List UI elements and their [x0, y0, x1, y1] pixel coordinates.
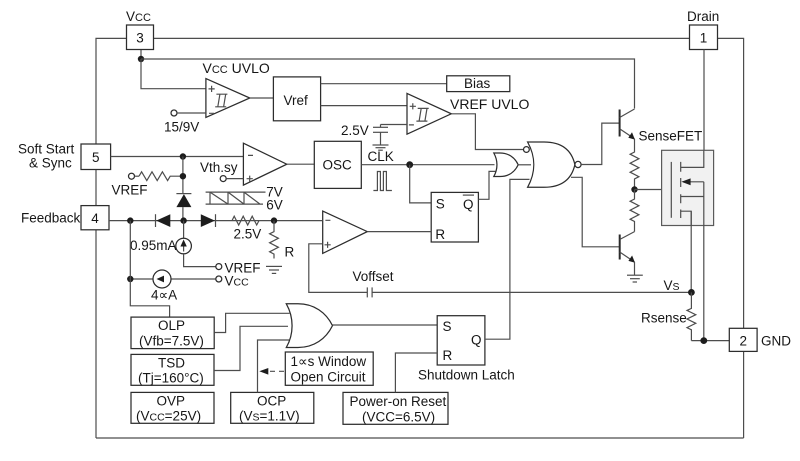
- wire OR out to shutdown S: [333, 324, 438, 326]
- wire Voffset line to Vs: [372, 291, 691, 293]
- svg-text:(VCC=25V): (VCC=25V): [136, 409, 201, 424]
- or-gate small OR (CLK/Qbar): [494, 153, 518, 177]
- resistor drive upper: [630, 150, 639, 190]
- svg-text:TSD: TSD: [158, 356, 185, 371]
- svg-text:1: 1: [700, 30, 708, 45]
- svg-text:2: 2: [739, 333, 747, 348]
- wire comparator to OSC: [287, 163, 315, 165]
- node feedback left: [127, 217, 133, 223]
- wire FET source down to GND node: [703, 197, 705, 341]
- node on soft start line: [180, 153, 186, 159]
- svg-text:OVP: OVP: [157, 394, 186, 409]
- terminal Vth.sy: [200, 160, 243, 182]
- wire feedback down to OLP: [130, 221, 169, 318]
- current source 4uA: [127, 270, 216, 303]
- nand-gate main NAND: [524, 142, 582, 187]
- pin 4 Feedback: [21, 206, 109, 230]
- svg-text:SenseFET: SenseFET: [639, 129, 703, 144]
- wire right border lower (pin2 to bottom): [743, 351, 745, 438]
- SenseFET body: [662, 150, 714, 225]
- wire CLK down to S input: [410, 165, 432, 203]
- wire small OR to NAND: [518, 164, 531, 166]
- svg-text:Open Circuit: Open Circuit: [291, 370, 366, 385]
- wire VCC rail to transistor collector: [141, 59, 635, 109]
- svg-text:Drain: Drain: [687, 9, 719, 24]
- wire NAND to bottom transistor base: [571, 177, 620, 247]
- wire left border: [96, 38, 127, 438]
- svg-text:Vref: Vref: [284, 93, 309, 108]
- svg-text:4∝A: 4∝A: [151, 288, 177, 303]
- block TSD: [131, 354, 214, 385]
- block OCP: [231, 392, 314, 423]
- wire CLK line: [361, 164, 494, 166]
- svg-text:2.5V: 2.5V: [234, 227, 262, 242]
- svg-text:(Tj=160°C): (Tj=160°C): [138, 371, 204, 386]
- svg-text:(VS=1.1V): (VS=1.1V): [239, 409, 300, 424]
- svg-text:S: S: [436, 197, 445, 212]
- wire pin5 to comparator: [111, 156, 244, 158]
- wire VCC to UVLO + input: [141, 59, 206, 89]
- wire right border upper (pin1 to pin2): [718, 38, 744, 328]
- node CLK: [406, 161, 413, 168]
- node GND: [700, 337, 707, 344]
- svg-text:Q: Q: [463, 197, 474, 212]
- svg-text:S: S: [443, 319, 452, 334]
- svg-text:VREF: VREF: [112, 183, 148, 198]
- svg-text:1∝s Window: 1∝s Window: [291, 354, 367, 369]
- block Bias: [447, 76, 510, 92]
- svg-text:R: R: [443, 348, 453, 363]
- wire Vref to VREF UVLO: [321, 105, 407, 107]
- wire OLP to OR gate: [214, 313, 289, 332]
- diode D1 (to soft start): [176, 194, 191, 221]
- svg-text:2.5V: 2.5V: [341, 123, 369, 138]
- svg-text:Vth.sy: Vth.sy: [200, 160, 238, 175]
- svg-text:3: 3: [136, 30, 144, 45]
- svg-text:Bias: Bias: [464, 76, 491, 91]
- wire Vref to Bias: [321, 83, 447, 85]
- diode D3 pointing right: [201, 214, 216, 227]
- svg-text:Soft Start: Soft Start: [18, 142, 75, 157]
- block Vref: [273, 77, 320, 121]
- svg-text:Q: Q: [471, 333, 482, 348]
- svg-text:VS: VS: [664, 278, 680, 293]
- svg-text:& Sync: & Sync: [29, 156, 72, 171]
- terminal VREF with resistor: [112, 172, 187, 198]
- wire OCP to OR gate: [258, 340, 290, 392]
- node gate drive: [631, 186, 637, 192]
- terminal VREF: [216, 261, 261, 276]
- capacitor Voffset: [353, 269, 394, 297]
- dashed arrow from window box to OCP line: [259, 368, 285, 375]
- wire comparator out to R input: [367, 231, 431, 233]
- svg-text:GND: GND: [761, 333, 791, 348]
- svg-text:Voffset: Voffset: [353, 269, 394, 284]
- wire shutdown Q up to NAND input: [485, 179, 530, 339]
- wire pin1 down to SenseFET drain: [703, 50, 705, 168]
- block 1us window open circuit: [285, 352, 373, 385]
- wire node to FET gate: [635, 189, 672, 191]
- node at pin3 bottom: [138, 56, 144, 62]
- svg-text:(VCC=6.5V): (VCC=6.5V): [362, 410, 435, 425]
- resistor Rsense: [641, 292, 696, 340]
- svg-text:Feedback: Feedback: [21, 210, 81, 225]
- svg-text:Power-on Reset: Power-on Reset: [350, 394, 447, 409]
- resistor R to ground: [270, 221, 295, 260]
- wire + input down to Voffset line: [309, 244, 368, 293]
- ground under Q2: [627, 275, 643, 282]
- wire 0.95mA to VREF terminal: [184, 254, 216, 267]
- wire FET sense down to Vs: [690, 211, 692, 292]
- node Vs: [688, 289, 695, 296]
- block OLP: [131, 317, 214, 349]
- node feedback mid: [180, 217, 186, 223]
- pin 2 GND: [729, 328, 791, 351]
- wire PWM Qbar to small OR: [478, 171, 497, 199]
- block OVP: [131, 392, 214, 423]
- svg-text:(Vfb=7.5V): (Vfb=7.5V): [139, 334, 204, 349]
- pin 3 VCC: [126, 9, 154, 50]
- pin 1 Drain: [687, 9, 719, 50]
- wire VREF UVLO output to NAND input bubble: [451, 114, 523, 150]
- op-amp VREF UVLO comparator: [407, 93, 529, 134]
- block Power-on Reset: [343, 392, 448, 424]
- pin 5 Soft Start & Sync: [18, 142, 111, 171]
- node feedback right: [271, 217, 277, 223]
- terminal VCC: [216, 274, 249, 289]
- svg-text:OSC: OSC: [323, 158, 353, 173]
- ground under R: [266, 266, 282, 273]
- capacitor 2.5V reference: [341, 123, 407, 145]
- transistor Q1 top NPN: [620, 109, 635, 150]
- wire comparator to Vref: [250, 97, 274, 99]
- svg-text:OLP: OLP: [158, 318, 185, 333]
- svg-text:5: 5: [92, 150, 100, 165]
- wire TSD to OR gate: [214, 326, 288, 370]
- resistor 2.5V: [232, 216, 261, 241]
- wire node down to diode: [182, 157, 184, 194]
- ground under 2.5V cap: [373, 145, 389, 150]
- wire top rail pin3 to pin1: [154, 37, 690, 39]
- svg-text:VREF UVLO: VREF UVLO: [450, 96, 529, 112]
- op-amp current sense comparator: [323, 211, 368, 253]
- svg-text:15/9V: 15/9V: [164, 120, 199, 135]
- svg-text:Shutdown Latch: Shutdown Latch: [418, 368, 515, 383]
- svg-text:OCP: OCP: [257, 394, 286, 409]
- svg-text:CLK: CLK: [368, 149, 394, 164]
- wire Rsense to pin2: [691, 340, 729, 342]
- latch PWM S/R flip-flop: [431, 192, 478, 242]
- wire power-on reset to R input: [395, 353, 437, 392]
- svg-text:VCC: VCC: [126, 9, 151, 24]
- input terminal 15/9V: [164, 110, 206, 135]
- diode D2 pointing left: [156, 214, 171, 227]
- sawtooth waveform 7V/6V: [206, 185, 283, 213]
- svg-text:Rsense: Rsense: [641, 311, 687, 326]
- or-gate protection OR: [286, 304, 332, 348]
- wire pin3 stub down: [140, 50, 142, 60]
- svg-text:R: R: [435, 227, 445, 242]
- wire NAND out to top transistor base: [581, 123, 620, 164]
- pulse waveform glyph: [373, 172, 392, 191]
- current source 0.95mA: [130, 221, 191, 254]
- svg-text:VCC: VCC: [225, 274, 250, 289]
- wire bottom border: [96, 437, 744, 439]
- svg-text:0.95mA: 0.95mA: [130, 238, 177, 253]
- svg-text:6V: 6V: [266, 198, 283, 213]
- op-amp soft start comparator: [243, 143, 286, 185]
- op-amp VCC UVLO comparator: [203, 60, 270, 117]
- latch shutdown S/R: [418, 316, 515, 383]
- block OSC: [314, 141, 361, 188]
- wire feedback line: [109, 220, 323, 222]
- transistor Q2 bottom NPN: [620, 232, 635, 275]
- resistor drive lower: [630, 190, 639, 232]
- svg-text:4: 4: [91, 211, 99, 226]
- svg-text:R: R: [285, 245, 295, 260]
